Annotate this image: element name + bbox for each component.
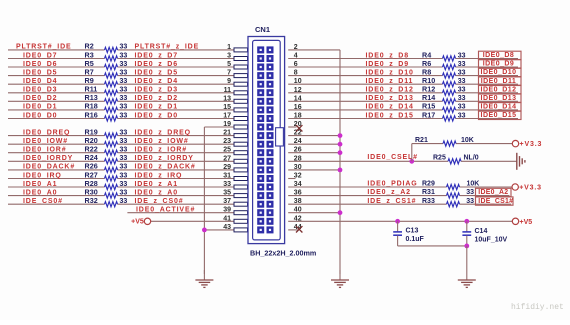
svg-text:IDE0_z_D14: IDE0_z_D14 [366,104,414,111]
svg-text:IDE0_DACK#: IDE0_DACK# [23,164,75,171]
svg-text:+V3.3: +V3.3 [519,185,542,192]
svg-text:IDE0_z_D12: IDE0_z_D12 [366,87,414,94]
svg-text:33: 33 [458,52,466,59]
svg-text:10K: 10K [461,137,474,144]
svg-text:IDE0_D11: IDE0_D11 [481,78,517,85]
svg-text:33: 33 [120,104,128,111]
svg-text:IDE0_z_IOR#: IDE0_z_IOR# [135,147,188,154]
svg-text:27: 27 [223,155,231,162]
svg-text:R29: R29 [422,180,435,187]
svg-text:R21: R21 [415,137,428,144]
svg-text:33: 33 [120,112,128,119]
svg-text:IDE0_D15: IDE0_D15 [481,112,517,119]
svg-text:10K: 10K [467,180,480,187]
svg-text:10uF_10V: 10uF_10V [475,237,508,244]
svg-text:33: 33 [458,95,466,102]
svg-text:IDE0_z_D8: IDE0_z_D8 [366,52,409,59]
svg-text:13: 13 [223,95,231,102]
svg-text:IDE0_z_D9: IDE0_z_D9 [366,61,409,68]
svg-text:IDE0_PDIAG: IDE0_PDIAG [367,180,417,187]
svg-text:33: 33 [120,44,128,51]
svg-text:33: 33 [120,172,128,179]
svg-text:C13: C13 [406,227,419,234]
svg-text:IDE0_D8: IDE0_D8 [483,52,515,59]
svg-text:R25: R25 [433,155,446,162]
svg-text:IDE0_D10: IDE0_D10 [481,69,517,76]
svg-text:17: 17 [223,113,231,120]
svg-text:IDE0_z_IRQ: IDE0_z_IRQ [135,172,183,179]
svg-text:IDE0_z_A0: IDE0_z_A0 [135,189,178,196]
svg-text:33: 33 [120,181,128,188]
svg-text:33: 33 [120,95,128,102]
svg-text:IDE0_IORDY: IDE0_IORDY [23,155,73,162]
svg-text:33: 33 [458,61,466,68]
svg-text:IDE0_IRQ: IDE0_IRQ [23,172,62,179]
svg-text:33: 33 [458,69,466,76]
svg-text:IDE0_z_IOW#: IDE0_z_IOW# [135,138,189,145]
svg-text:33: 33 [120,164,128,171]
svg-text:R33: R33 [422,198,435,205]
svg-text:0.1uF: 0.1uF [406,236,425,243]
svg-text:IDE0_z_D15: IDE0_z_D15 [366,112,414,119]
svg-text:+V5: +V5 [520,219,533,226]
svg-text:R32: R32 [85,196,98,205]
svg-text:C14: C14 [475,228,488,235]
svg-text:IDE0_D12: IDE0_D12 [481,86,517,93]
svg-text:IDE0_z_D7: IDE0_z_D7 [135,52,178,59]
svg-text:19: 19 [223,121,231,128]
svg-text:IDE0_z_DREQ: IDE0_z_DREQ [135,129,191,136]
svg-text:33: 33 [466,189,474,196]
svg-text:R16: R16 [85,110,98,119]
svg-text:R17: R17 [422,110,435,119]
svg-text:33: 33 [120,147,128,154]
svg-text:5: 5 [227,61,231,68]
svg-text:3: 3 [227,53,231,60]
svg-text:33: 33 [120,198,128,205]
svg-text:43: 43 [223,224,231,231]
svg-text:33: 33 [458,78,466,85]
svg-text:IDE0_A1: IDE0_A1 [23,181,57,188]
svg-text:7: 7 [227,70,231,77]
svg-text:BH_22x2H_2.00mm: BH_22x2H_2.00mm [250,249,316,258]
svg-text:33: 33 [120,155,128,162]
svg-text:IDE0_z_IORDY: IDE0_z_IORDY [135,155,194,162]
svg-text:IDE0_D9: IDE0_D9 [483,61,515,68]
svg-text:35: 35 [223,190,231,197]
svg-text:IDE0_D3: IDE0_D3 [23,87,57,94]
svg-text:IDE0_z_A2: IDE0_z_A2 [367,189,410,196]
svg-text:IDE_CS0#: IDE_CS0# [23,198,63,205]
svg-text:33: 33 [120,138,128,145]
svg-text:39: 39 [223,207,231,214]
svg-text:33: 33 [458,104,466,111]
svg-text:IDE0_D13: IDE0_D13 [481,95,517,102]
svg-text:hifidiy.net: hifidiy.net [511,303,564,312]
svg-text:IDE0_z_DACK#: IDE0_z_DACK# [135,164,196,171]
svg-text:IDE0_z_D11: IDE0_z_D11 [366,78,414,85]
svg-text:IDE0_z_D10: IDE0_z_D10 [366,69,414,76]
svg-text:33: 33 [120,129,128,136]
svg-text:IDE0_D6: IDE0_D6 [23,61,57,68]
svg-text:IDE0_D0: IDE0_D0 [23,112,57,119]
svg-text:33: 33 [223,181,231,188]
svg-text:IDE0_z_D3: IDE0_z_D3 [135,87,178,94]
svg-text:+V3.3: +V3.3 [520,141,543,148]
svg-text:41: 41 [223,215,231,222]
svg-text:IDE0_z_D1: IDE0_z_D1 [135,104,178,111]
svg-text:29: 29 [223,164,231,171]
svg-text:NL/0: NL/0 [464,155,479,162]
svg-text:33: 33 [120,87,128,94]
svg-text:IDE0_z_D2: IDE0_z_D2 [135,95,178,102]
svg-text:IDE0_ACTIVE#: IDE0_ACTIVE# [136,207,195,214]
svg-text:IDE0_D2: IDE0_D2 [23,95,57,102]
svg-text:33: 33 [458,87,466,94]
svg-text:9: 9 [227,78,231,85]
svg-text:37: 37 [223,198,231,205]
svg-text:IDE0_D5: IDE0_D5 [23,69,57,76]
svg-text:IDE0_z_D0: IDE0_z_D0 [135,112,178,119]
svg-text:33: 33 [120,189,128,196]
svg-text:IDE0_A2: IDE0_A2 [478,189,508,196]
svg-text:IDE0_IOW#: IDE0_IOW# [23,138,68,145]
svg-text:IDE0_A0: IDE0_A0 [23,189,57,196]
svg-text:PLTRST#_z_IDE: PLTRST#_z_IDE [135,44,200,51]
svg-text:IDE0_z_D13: IDE0_z_D13 [366,95,414,102]
svg-text:33: 33 [466,198,474,205]
svg-text:33: 33 [120,52,128,59]
svg-text:15: 15 [223,104,231,111]
svg-text:33: 33 [120,61,128,68]
svg-text:IDE0_D1: IDE0_D1 [23,104,57,111]
svg-text:33: 33 [458,112,466,119]
svg-text:11: 11 [224,87,232,94]
svg-text:IDE0_DREQ: IDE0_DREQ [23,129,70,136]
svg-text:IDE_z_CS1#: IDE_z_CS1# [367,198,416,205]
svg-text:33: 33 [120,69,128,76]
svg-text:PLTRST#_IDE: PLTRST#_IDE [16,44,72,51]
svg-text:IDE0_z_D5: IDE0_z_D5 [135,69,178,76]
svg-text:IDE0_D7: IDE0_D7 [23,52,57,59]
svg-text:R31: R31 [422,189,435,196]
svg-text:CN1: CN1 [255,25,270,34]
svg-text:IDE0_D4: IDE0_D4 [23,78,57,85]
svg-text:IDE0_D14: IDE0_D14 [481,104,517,111]
svg-text:+V5: +V5 [131,219,144,226]
svg-text:IDE0_z_A1: IDE0_z_A1 [135,181,178,188]
svg-text:IDE_CS1#: IDE_CS1# [478,198,513,205]
svg-text:1: 1 [227,44,231,51]
svg-text:25: 25 [223,147,231,154]
svg-text:IDE0_z_D6: IDE0_z_D6 [135,61,178,68]
svg-text:IDE0_IOR#: IDE0_IOR# [23,147,66,154]
svg-text:31: 31 [223,173,231,180]
svg-text:21: 21 [223,130,231,137]
svg-text:IDE_z_CS0#: IDE_z_CS0# [135,198,184,205]
svg-text:23: 23 [223,138,231,145]
svg-text:33: 33 [120,78,128,85]
svg-text:IDE0_z_D4: IDE0_z_D4 [135,78,178,85]
